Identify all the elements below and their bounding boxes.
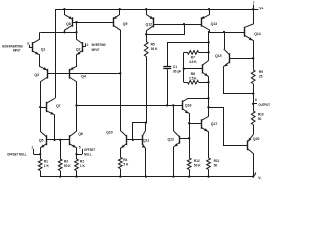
transistor Q13 [201,9,218,32]
wire R7/R8 left link and base tap [183,52,202,82]
svg-text:4: 4 [254,171,256,175]
svg-text:R2: R2 [80,160,84,164]
transistor Q16 [182,99,208,124]
svg-text:2: 2 [87,43,89,47]
svg-text:R3: R3 [64,160,68,164]
resistor R7 [184,51,209,64]
svg-text:1 K: 1 K [44,164,50,168]
svg-text:Q16: Q16 [185,104,192,108]
svg-text:Q7: Q7 [56,104,61,108]
transistor Q11 [142,123,150,177]
transistor Q5 [39,131,47,154]
wire Q12/Q13 base rail and diode loop [145,23,201,35]
svg-text:30 pF: 30 pF [173,70,181,74]
resistor R3 [58,159,71,177]
transistor Q17 [188,107,217,158]
wire Q17 collector node to Q20 base [209,108,248,146]
wire Q3 collector down to Q5 [40,107,42,131]
svg-text:Q6: Q6 [78,132,83,136]
wire V- rail [40,175,254,177]
svg-text:4.5 K: 4.5 K [189,60,197,64]
pin 4 V- [253,171,262,179]
transistor Q8 [65,9,73,32]
resistor R10 [251,111,263,135]
transistor Q2 [76,32,83,58]
capacitor C1 [163,43,208,106]
wire node B vertical [208,32,210,60]
svg-text:Q17: Q17 [211,122,218,126]
svg-text:6: 6 [255,98,257,102]
svg-text:NULL: NULL [84,152,92,157]
wire V+ rail (pin 7 to left end) [55,8,258,10]
pin 2 inverting input [82,43,106,53]
wire Q5/Q6 base rail [46,139,69,141]
svg-text:Q20: Q20 [253,137,260,141]
wire node B emitter segment down [207,82,209,108]
svg-text:1: 1 [31,146,33,150]
resistor R11 [207,158,220,177]
wire Q3 collector to Q7 base branch [39,106,47,108]
svg-text:OUTPUT: OUTPUT [258,103,270,108]
svg-text:Q8: Q8 [66,22,71,26]
svg-text:Q22: Q22 [168,137,175,141]
wire Q1/Q2 collector node [40,31,77,33]
pin 6 output [252,94,271,111]
wire Q15 emitter to output [224,68,255,94]
svg-text:5 K: 5 K [123,163,129,167]
svg-text:R12: R12 [194,159,200,163]
svg-text:Q12: Q12 [146,22,153,26]
wire first stage output to Q16 base [77,104,183,106]
resistor R5 [144,34,158,122]
svg-text:50: 50 [214,163,218,167]
svg-text:25: 25 [259,75,263,79]
transistor Q14 [245,9,261,58]
resistor R2 [75,154,86,176]
wire Q3/Q4 base line to Q9/Q10 node [48,72,122,74]
svg-text:C1: C1 [173,65,177,69]
transistor Q9 [113,9,128,34]
svg-text:50: 50 [258,117,262,121]
svg-text:50 K: 50 K [64,164,71,168]
resistor R4 [118,157,128,176]
svg-text:Q10: Q10 [106,130,113,134]
svg-text:Q5: Q5 [39,139,44,143]
svg-text:R9: R9 [259,70,263,74]
svg-text:Q1: Q1 [41,47,46,51]
transistor Q10 [106,73,126,157]
svg-text:INPUT: INPUT [13,48,21,53]
transistor Q12 [146,9,154,34]
pin 1 offset null [7,146,41,157]
svg-text:Q14: Q14 [254,32,261,36]
svg-text:INPUT: INPUT [92,48,100,53]
transistor Q6 [70,131,83,154]
svg-text:3: 3 [27,42,29,46]
resistor R1 [38,154,49,176]
svg-text:5: 5 [79,146,81,150]
transistor Q3 [34,59,47,107]
transistor Q4 [69,59,86,106]
svg-text:V+: V+ [259,7,263,11]
svg-text:R1: R1 [44,160,48,164]
wire Q4/Q6 collector node to first stage output [75,104,77,131]
wire Q9 collector to Q3/Q4 base node [120,34,122,73]
wire Q10/Q11 base link [127,121,147,141]
svg-text:1 K: 1 K [80,164,86,168]
transistor Q20 [247,135,259,177]
svg-text:R5: R5 [151,43,155,47]
pin 5 offset null [75,146,96,157]
transistor Q7 [47,98,61,140]
svg-text:R10: R10 [258,112,264,116]
svg-text:Q13: Q13 [211,22,218,26]
svg-text:Q11: Q11 [143,138,149,142]
transistor Q22 [168,105,190,176]
svg-text:7.5 K: 7.5 K [189,76,197,80]
svg-text:R4: R4 [123,158,127,162]
wire Q8/Q9 base rail [72,21,113,32]
wire V+ drop to Q7 collector [55,9,57,98]
svg-text:Q15: Q15 [215,54,222,58]
resistor R8 [184,72,209,84]
wire Q7 emitter junction drop to R3 [60,140,62,159]
transistor Q18 VBE multiplier [202,60,210,83]
transistor Q15 [215,49,254,68]
svg-text:Q2: Q2 [76,47,81,51]
pin 3 non-inverting input [2,42,32,53]
svg-text:7: 7 [253,1,255,5]
svg-text:Q9: Q9 [123,22,128,26]
wire Q15 collector up to Q14 base node [224,32,226,49]
wire Q13 collector to Q14 base [208,31,245,33]
svg-text:39 K: 39 K [151,47,158,51]
svg-text:OFFSET NULL: OFFSET NULL [7,152,27,157]
svg-text:Q3: Q3 [34,73,39,77]
svg-text:R11: R11 [214,159,220,163]
svg-text:Q4: Q4 [81,75,86,79]
resistor R9 [251,58,263,93]
svg-text:50 K: 50 K [194,163,201,167]
resistor R12 [187,123,201,176]
transistor Q1 [32,32,45,58]
pin 7 V+ [253,1,264,10]
